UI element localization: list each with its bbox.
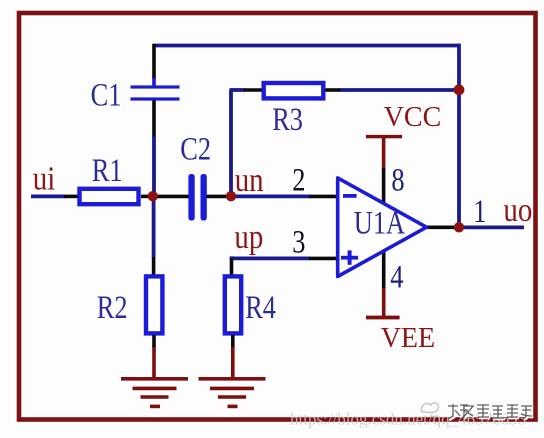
wire node un up to R3 row bbox=[229, 90, 233, 196]
label R1 bbox=[92, 152, 123, 188]
svg-text:C2: C2 bbox=[180, 131, 211, 167]
pin number 3 bbox=[292, 224, 305, 260]
svg-text:VEE: VEE bbox=[381, 323, 435, 354]
junction R3 feedback bbox=[454, 84, 465, 95]
svg-text:8: 8 bbox=[391, 162, 404, 198]
net label VEE bbox=[381, 323, 435, 354]
wire R1 to node A bbox=[141, 195, 150, 199]
resistor R2 bbox=[146, 276, 162, 333]
junction node A bbox=[148, 191, 158, 201]
svg-text:R1: R1 bbox=[92, 152, 123, 188]
svg-text:un: un bbox=[235, 161, 264, 199]
net label VCC bbox=[384, 102, 442, 133]
svg-text:4: 4 bbox=[390, 259, 403, 295]
resistor R4 bbox=[225, 276, 241, 333]
wire R3 left pin bbox=[230, 88, 263, 92]
label U1A bbox=[354, 205, 406, 241]
capacitor C1 bbox=[131, 85, 180, 100]
pin number 2 bbox=[292, 162, 305, 198]
wire up node to pin 3 bbox=[232, 256, 341, 260]
svg-text:R3: R3 bbox=[272, 101, 303, 137]
node label un bbox=[235, 161, 264, 199]
power VEE bar bbox=[366, 316, 400, 320]
watermark chinese text 张飞实战电子 (vector strokes) bbox=[448, 404, 533, 420]
junction output bbox=[454, 222, 464, 232]
wire pin 4 to VEE bbox=[382, 251, 386, 316]
resistor R3 bbox=[264, 83, 324, 98]
power VCC bar bbox=[366, 135, 402, 138]
svg-text:uo: uo bbox=[503, 191, 532, 229]
ground under R2 bbox=[121, 379, 188, 407]
op-amp U1A bbox=[338, 178, 427, 277]
wire R4 to ground bbox=[231, 335, 235, 377]
wire node A to C2 bbox=[156, 195, 189, 199]
node label uo bbox=[503, 191, 532, 229]
watermark csdn bird logo bbox=[421, 403, 438, 417]
node label ui bbox=[33, 159, 56, 197]
wire output to uo bbox=[459, 225, 524, 229]
wire C2 to node un bbox=[206, 195, 227, 199]
node label up bbox=[234, 218, 263, 256]
wire ui input bbox=[31, 194, 78, 198]
svg-text:R2: R2 bbox=[97, 289, 128, 325]
svg-text:U1A: U1A bbox=[354, 205, 406, 241]
op-amp minus input mark bbox=[343, 194, 357, 198]
junction node un bbox=[226, 191, 236, 201]
wire top feedback horizontal bbox=[153, 44, 459, 48]
wire C1 bottom pin bbox=[152, 100, 156, 194]
wire R2 to ground bbox=[152, 335, 156, 377]
wire right feedback vertical bbox=[457, 44, 461, 228]
capacitor C2 bbox=[188, 174, 206, 221]
label R3 bbox=[272, 101, 303, 137]
wire node A down to R2 bbox=[152, 198, 156, 275]
label R4 bbox=[245, 289, 276, 325]
svg-text:2: 2 bbox=[292, 162, 305, 198]
svg-text:VCC: VCC bbox=[384, 102, 442, 133]
resistor R1 bbox=[80, 189, 139, 204]
wire R3 right pin bbox=[326, 88, 460, 92]
svg-text:https://blog.csdn.net/qq_46576: https://blog.csdn.net/qq_46576653 bbox=[290, 410, 526, 429]
wire up node down to R4 bbox=[230, 258, 234, 275]
label R2 bbox=[97, 289, 128, 325]
svg-text:up: up bbox=[234, 218, 263, 256]
wire pin 8 to VCC bbox=[382, 138, 386, 205]
svg-text:1: 1 bbox=[473, 193, 486, 229]
svg-text:C1: C1 bbox=[91, 77, 122, 113]
op-amp plus input mark bbox=[341, 250, 358, 264]
pin number 1 bbox=[473, 193, 486, 229]
pin number 8 bbox=[391, 162, 404, 198]
svg-text:R4: R4 bbox=[245, 289, 276, 325]
wire node un to pin 2 bbox=[233, 194, 340, 198]
svg-text:3: 3 bbox=[292, 224, 305, 260]
wire C1 top pin bbox=[152, 44, 156, 86]
wire output stub bbox=[427, 226, 455, 230]
watermark url text bbox=[290, 410, 526, 429]
pin number 4 bbox=[390, 259, 403, 295]
ground under R4 bbox=[199, 379, 266, 407]
svg-text:ui: ui bbox=[33, 159, 56, 197]
label C2 bbox=[180, 131, 211, 167]
label C1 bbox=[91, 77, 122, 113]
